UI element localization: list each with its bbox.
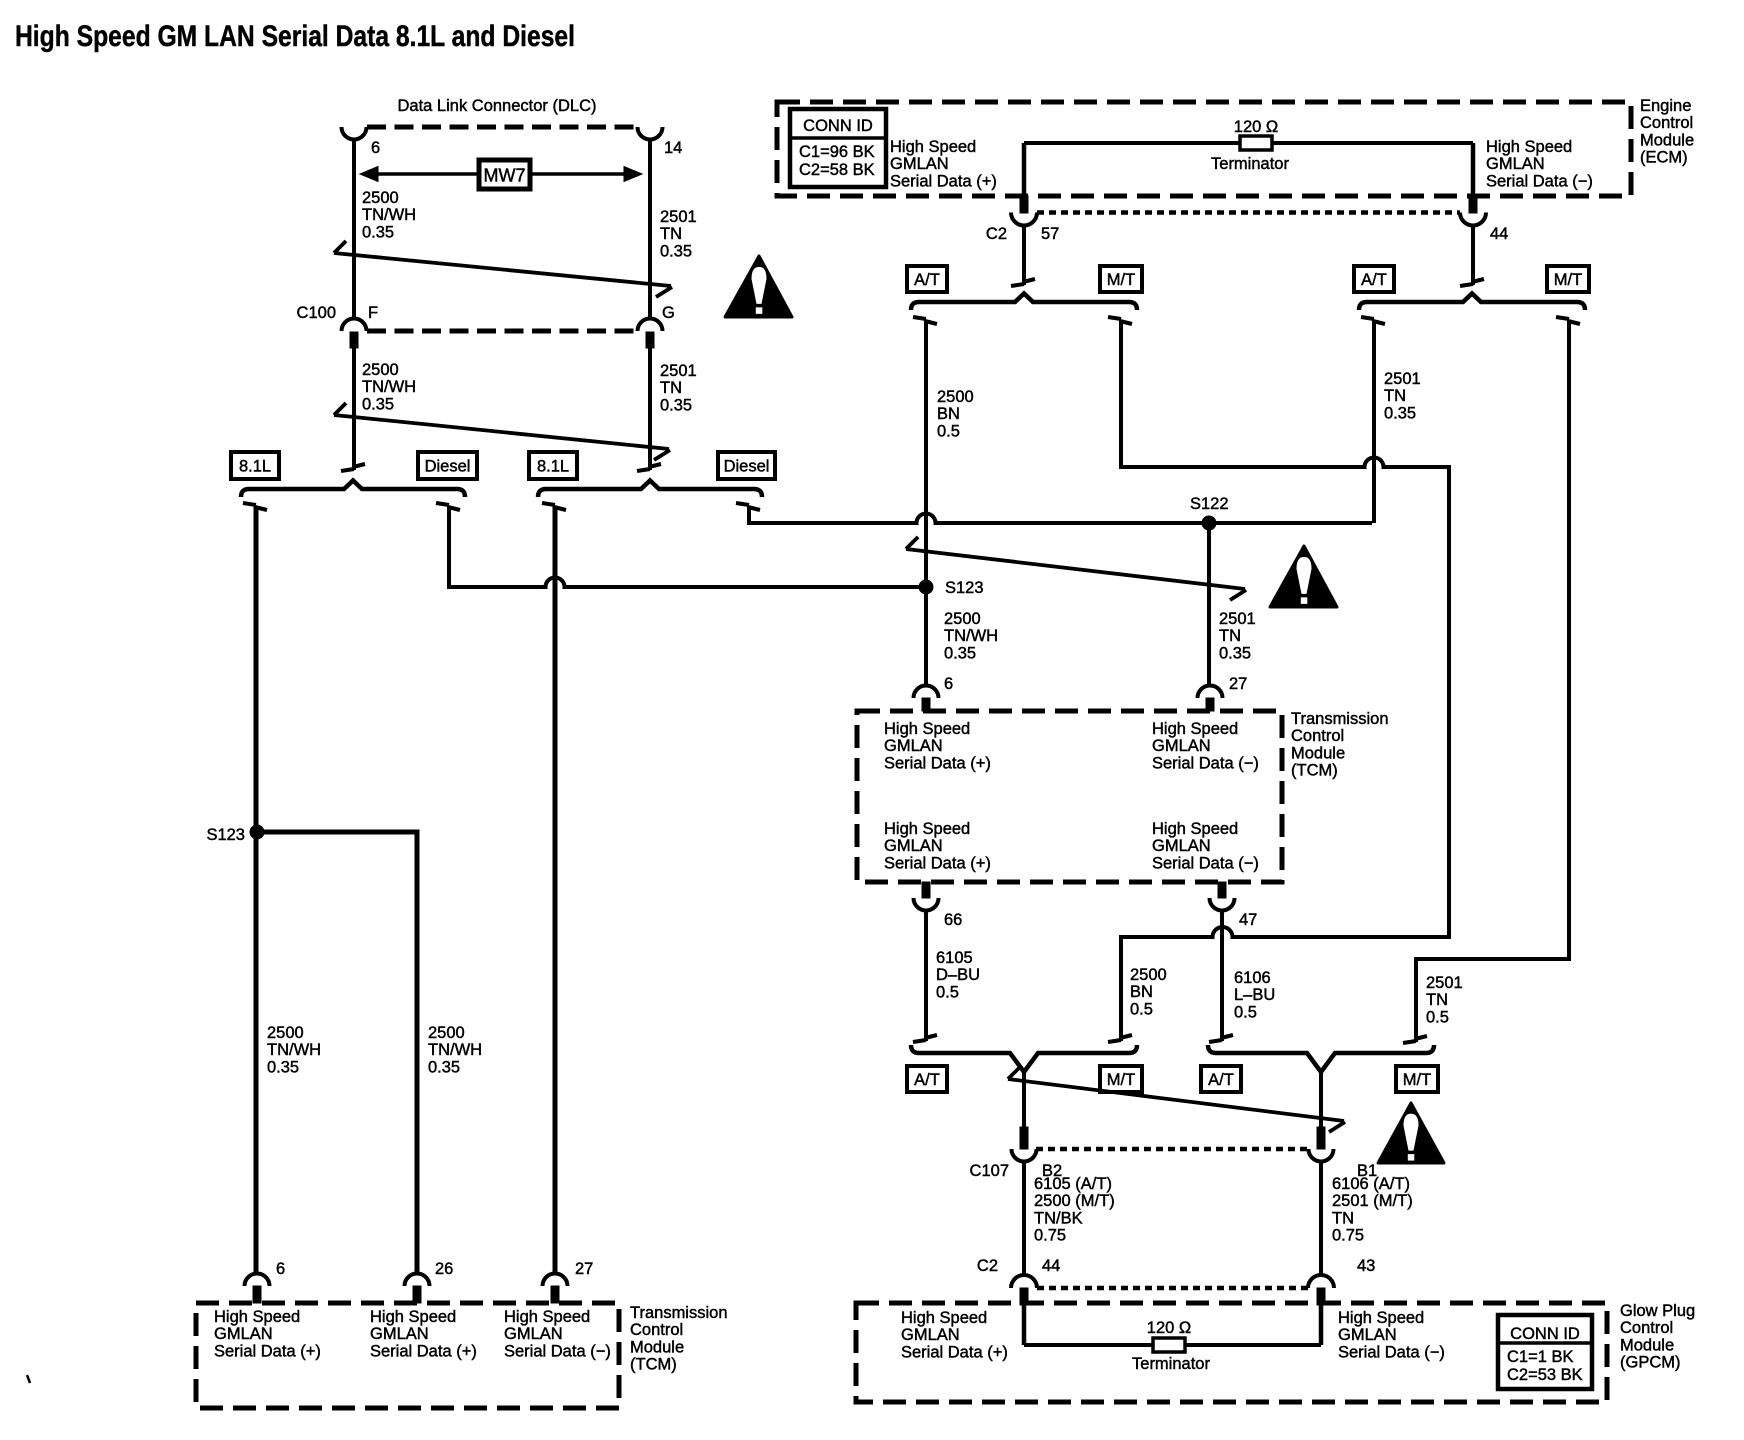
M/T box 2	[1547, 266, 1589, 292]
DLC pin 6 connector arc	[342, 127, 367, 140]
svg-text:High Speed: High Speed	[901, 1309, 987, 1327]
TCM2 pin 27 arc	[543, 1274, 568, 1287]
svg-text:Serial Data (+): Serial Data (+)	[884, 854, 991, 872]
svg-text:2501: 2501	[660, 208, 697, 226]
wire ECM pin 57 inside	[1022, 143, 1027, 197]
svg-text:GMLAN: GMLAN	[1152, 837, 1211, 855]
svg-text:6105 (A/T): 6105 (A/T)	[1034, 1175, 1112, 1193]
svg-text:TN/WH: TN/WH	[428, 1041, 482, 1059]
wire Diesel-B branch to S122	[736, 503, 760, 510]
svg-text:43: 43	[1357, 1257, 1375, 1275]
A/T box 2	[1354, 266, 1394, 292]
wire M/T-2 branch (2501 TN long)	[1556, 317, 1580, 324]
svg-text:L–BU: L–BU	[1234, 986, 1275, 1004]
svg-text:High Speed: High Speed	[1338, 1309, 1424, 1327]
wire brace4 to C107 B1	[1319, 1070, 1323, 1130]
svg-text:C107: C107	[970, 1162, 1009, 1180]
svg-text:47: 47	[1239, 911, 1257, 929]
svg-text:0.35: 0.35	[944, 644, 976, 662]
svg-text:High Speed: High Speed	[504, 1308, 590, 1326]
svg-text:2501: 2501	[1219, 610, 1256, 628]
svg-text:GMLAN: GMLAN	[1152, 737, 1211, 755]
GPCM module box	[856, 1303, 1607, 1402]
svg-text:2500: 2500	[362, 189, 399, 207]
svg-text:CONN ID: CONN ID	[803, 117, 873, 135]
svg-text:2501: 2501	[1426, 974, 1463, 992]
M/T box 3	[1100, 1066, 1142, 1092]
svg-text:120 Ω: 120 Ω	[1234, 118, 1278, 136]
svg-text:Serial Data (−): Serial Data (−)	[1486, 172, 1593, 190]
svg-text:C2=58 BK: C2=58 BK	[799, 161, 875, 179]
svg-text:0.5: 0.5	[937, 422, 960, 440]
svg-text:TN: TN	[660, 379, 682, 397]
TCM pin 47 stub	[1218, 882, 1226, 898]
svg-text:Transmission: Transmission	[630, 1304, 728, 1322]
svg-text:Serial Data (−): Serial Data (−)	[1152, 854, 1259, 872]
node S122	[1202, 516, 1216, 530]
GPCM terminator wire	[1024, 1343, 1321, 1347]
svg-text:Control: Control	[1640, 114, 1693, 132]
svg-text:TN: TN	[1219, 627, 1241, 645]
svg-text:M/T: M/T	[1107, 271, 1135, 289]
svg-text:High Speed: High Speed	[1152, 820, 1238, 838]
wire brace3 to C107 B2	[1022, 1070, 1026, 1130]
svg-text:MW7: MW7	[484, 166, 526, 186]
wire S122 to TCM pin 27	[1207, 523, 1211, 686]
svg-text:(TCM): (TCM)	[630, 1356, 677, 1374]
brace 4	[1208, 1045, 1434, 1072]
C2 pin 43 arc (GPCM)	[1308, 1275, 1334, 1288]
TCM pin 66 stub	[922, 882, 930, 898]
svg-text:Glow Plug: Glow Plug	[1620, 1302, 1695, 1320]
svg-text:0.35: 0.35	[1384, 404, 1416, 422]
C2 pin 44 arc	[1460, 213, 1486, 226]
svg-text:TN: TN	[660, 225, 682, 243]
wire below pin 57	[1022, 226, 1026, 286]
A/T box 3	[907, 1066, 947, 1092]
svg-text:6105: 6105	[936, 949, 973, 967]
wire 8.1L-B branch to TCM pin 27	[542, 503, 566, 510]
DLC pin 14 connector arc	[638, 127, 663, 140]
svg-text:27: 27	[1229, 675, 1247, 693]
svg-text:TN/WH: TN/WH	[362, 206, 416, 224]
svg-text:High Speed: High Speed	[890, 138, 976, 156]
svg-text:GMLAN: GMLAN	[890, 155, 949, 173]
svg-text:0.5: 0.5	[936, 983, 959, 1001]
GPCM CONN ID table	[1498, 1315, 1592, 1389]
svg-text:0.35: 0.35	[267, 1058, 299, 1076]
pointer diagonal 3	[1008, 1079, 1344, 1121]
svg-text:(TCM): (TCM)	[1291, 762, 1338, 780]
svg-text:C1=96 BK: C1=96 BK	[799, 143, 875, 161]
resistor 120 ohm terminator (ECM)	[1240, 136, 1272, 150]
svg-text:TN: TN	[1426, 991, 1448, 1009]
svg-text:0.35: 0.35	[1219, 644, 1251, 662]
wire S123 to TCM pin 26	[259, 832, 417, 1272]
svg-text:TN/WH: TN/WH	[944, 627, 998, 645]
node S123 left	[250, 825, 264, 839]
svg-text:High Speed GM LAN Serial Data: High Speed GM LAN Serial Data 8.1L and D…	[15, 20, 575, 53]
wire GPCM 44 to terminator	[1022, 1305, 1027, 1345]
svg-text:2500: 2500	[267, 1024, 304, 1042]
svg-text:2500 (M/T): 2500 (M/T)	[1034, 1192, 1115, 1210]
svg-text:High Speed: High Speed	[370, 1308, 456, 1326]
pointer diagonal 1	[334, 253, 671, 286]
M/T box 4	[1396, 1066, 1438, 1092]
brace 1	[911, 294, 1137, 311]
TCM pin 6 arc	[914, 686, 939, 699]
svg-text:Serial Data (+): Serial Data (+)	[884, 754, 991, 772]
svg-text:(ECM): (ECM)	[1640, 149, 1688, 167]
svg-text:High Speed: High Speed	[884, 820, 970, 838]
svg-text:2500: 2500	[428, 1024, 465, 1042]
wire TCM 66 down (6105)	[924, 910, 928, 1041]
svg-text:2500: 2500	[944, 610, 981, 628]
wire DLC pin 6 to C100 F	[352, 139, 356, 319]
svg-text:Diesel: Diesel	[425, 458, 471, 476]
svg-text:Serial Data (+): Serial Data (+)	[901, 1343, 1008, 1361]
C2 pin 44 arc (GPCM)	[1011, 1275, 1037, 1288]
svg-text:F: F	[368, 304, 378, 322]
svg-text:Control: Control	[1291, 727, 1344, 745]
svg-text:TN/BK: TN/BK	[1034, 1209, 1083, 1227]
svg-text:44: 44	[1490, 225, 1508, 243]
svg-text:26: 26	[435, 1260, 453, 1278]
wire C100 F down	[352, 348, 356, 470]
warning triangle 1	[725, 256, 792, 317]
svg-text:0.35: 0.35	[660, 396, 692, 414]
ECM terminator wire	[1024, 141, 1473, 145]
C100 pin G stub	[646, 332, 654, 348]
svg-text:GMLAN: GMLAN	[504, 1325, 563, 1343]
wire TCM 47 down (6106)	[1220, 910, 1224, 1041]
C107 connector dotted line	[1036, 1147, 1309, 1152]
warning triangle 2	[1270, 546, 1337, 607]
C100 connector dashed line	[367, 329, 637, 334]
A/T box 1	[907, 266, 947, 292]
svg-text:C1=1 BK: C1=1 BK	[1507, 1348, 1574, 1366]
svg-text:2500: 2500	[937, 388, 974, 406]
svg-text:Serial Data (+): Serial Data (+)	[890, 172, 997, 190]
brace 2	[1359, 294, 1585, 311]
wire 8.1L-A branch to S123	[243, 503, 267, 510]
svg-text:A/T: A/T	[1361, 271, 1387, 289]
svg-text:TN: TN	[1332, 1209, 1354, 1227]
brace 3	[911, 1045, 1137, 1072]
node S123 right	[919, 580, 933, 594]
svg-text:Serial Data (−): Serial Data (−)	[1152, 754, 1259, 772]
ECM pin 57 stub	[1020, 196, 1028, 213]
TCM2 module box	[196, 1303, 619, 1408]
svg-text:0.5: 0.5	[1234, 1003, 1257, 1021]
svg-text:2501: 2501	[1384, 370, 1421, 388]
wire A/T-2 branch (2501 TN)	[1361, 317, 1385, 324]
svg-text:8.1L: 8.1L	[239, 458, 271, 476]
svg-text:6: 6	[276, 1260, 285, 1278]
pointer diagonal 2	[906, 549, 1245, 589]
svg-text:Engine: Engine	[1640, 97, 1691, 115]
svg-text:Terminator: Terminator	[1132, 1355, 1210, 1373]
svg-text:CONN ID: CONN ID	[1510, 1325, 1580, 1343]
svg-text:G: G	[662, 304, 675, 322]
svg-text:GMLAN: GMLAN	[884, 837, 943, 855]
svg-text:C100: C100	[297, 304, 336, 322]
svg-text:BN: BN	[937, 405, 960, 423]
svg-text:0.5: 0.5	[1426, 1008, 1449, 1026]
ECM module box	[777, 102, 1631, 196]
svg-text:A/T: A/T	[914, 271, 940, 289]
svg-text:C2: C2	[986, 225, 1007, 243]
svg-text:0.35: 0.35	[362, 223, 394, 241]
svg-text:0.75: 0.75	[1332, 1227, 1364, 1245]
ECM CONN ID table	[790, 109, 886, 187]
warning triangle 3	[1378, 1103, 1444, 1163]
svg-text:M/T: M/T	[1554, 271, 1582, 289]
stray mark	[27, 1375, 30, 1383]
wire below pin 44	[1471, 226, 1475, 286]
C107 pin B1 arc	[1309, 1149, 1334, 1162]
svg-text:14: 14	[664, 139, 682, 157]
svg-text:2501: 2501	[660, 362, 697, 380]
wire B1 down	[1319, 1162, 1323, 1276]
svg-text:27: 27	[575, 1260, 593, 1278]
svg-text:GMLAN: GMLAN	[370, 1325, 429, 1343]
svg-text:TN/WH: TN/WH	[362, 378, 416, 396]
svg-text:S122: S122	[1190, 495, 1229, 513]
svg-text:Serial Data (+): Serial Data (+)	[370, 1342, 477, 1360]
M/T box 1	[1100, 266, 1142, 292]
TCM2 pin 26 arc	[405, 1274, 430, 1287]
svg-text:High Speed: High Speed	[884, 720, 970, 738]
svg-text:GMLAN: GMLAN	[1486, 155, 1545, 173]
svg-text:Diesel: Diesel	[724, 458, 770, 476]
svg-text:0.75: 0.75	[1034, 1227, 1066, 1245]
svg-text:6: 6	[944, 675, 953, 693]
pointer diagonal 2a	[334, 415, 669, 449]
svg-text:6106 (A/T): 6106 (A/T)	[1332, 1175, 1410, 1193]
C100 pin F stub	[350, 332, 358, 348]
svg-text:Serial Data (+): Serial Data (+)	[214, 1342, 321, 1360]
TCM pin 27 arc	[1198, 686, 1223, 699]
Diesel box B	[718, 452, 775, 479]
C2 connector dotted line (GPCM)	[1037, 1286, 1308, 1291]
svg-text:0.35: 0.35	[428, 1058, 460, 1076]
svg-text:0.35: 0.35	[362, 395, 394, 413]
TCM2 pin 6 arc	[245, 1274, 270, 1287]
svg-text:(GPCM): (GPCM)	[1620, 1354, 1681, 1372]
wire A/T-1 branch (2500 BN) to TCM pin 6	[913, 317, 937, 324]
svg-text:0.5: 0.5	[1130, 1000, 1153, 1018]
C2 pin 57 arc	[1011, 213, 1037, 226]
svg-text:S123: S123	[206, 826, 245, 844]
svg-text:Serial Data (−): Serial Data (−)	[504, 1342, 611, 1360]
svg-text:Control: Control	[630, 1321, 683, 1339]
svg-text:2501 (M/T): 2501 (M/T)	[1332, 1192, 1413, 1210]
svg-text:GMLAN: GMLAN	[884, 737, 943, 755]
svg-text:GMLAN: GMLAN	[901, 1326, 960, 1344]
C100 pin F arc	[342, 319, 367, 332]
svg-text:44: 44	[1042, 1257, 1060, 1275]
svg-text:2500: 2500	[362, 361, 399, 379]
svg-text:M/T: M/T	[1403, 1071, 1431, 1089]
brace B	[538, 481, 762, 498]
wire B2 down	[1022, 1162, 1026, 1276]
C2 connector dotted line (ECM)	[1037, 210, 1460, 215]
C100 pin G arc	[638, 319, 663, 332]
resistor 120 ohm terminator (GPCM)	[1153, 1338, 1185, 1352]
svg-text:Serial Data (−): Serial Data (−)	[1338, 1343, 1445, 1361]
svg-text:0.35: 0.35	[660, 242, 692, 260]
svg-text:TN: TN	[1384, 387, 1406, 405]
8.1L box A	[231, 452, 279, 479]
svg-text:6106: 6106	[1234, 969, 1271, 987]
MW7 box	[479, 160, 530, 189]
svg-text:Terminator: Terminator	[1211, 155, 1289, 173]
svg-text:C2: C2	[977, 1257, 998, 1275]
ECM pin 44 stub	[1469, 196, 1477, 213]
svg-text:A/T: A/T	[1208, 1071, 1234, 1089]
8.1L box B	[529, 452, 577, 479]
svg-text:120 Ω: 120 Ω	[1147, 1319, 1191, 1337]
svg-text:GMLAN: GMLAN	[1338, 1326, 1397, 1344]
wire DLC pin 14 to C100 G	[648, 139, 652, 319]
svg-text:Module: Module	[1291, 744, 1345, 762]
svg-text:Module: Module	[1640, 131, 1694, 149]
svg-text:6: 6	[371, 139, 380, 157]
Diesel box A	[418, 452, 477, 479]
MW7 jumper arrow	[366, 172, 636, 176]
svg-text:Module: Module	[1620, 1336, 1674, 1354]
svg-text:Transmission: Transmission	[1291, 710, 1389, 728]
svg-text:High Speed: High Speed	[214, 1308, 300, 1326]
svg-text:Module: Module	[630, 1338, 684, 1356]
svg-text:57: 57	[1041, 225, 1059, 243]
svg-text:D–BU: D–BU	[936, 966, 980, 984]
svg-text:8.1L: 8.1L	[537, 458, 569, 476]
svg-text:66: 66	[944, 911, 962, 929]
A/T box 4	[1201, 1066, 1241, 1092]
DLC connector dashed line	[367, 125, 640, 130]
svg-text:TN/WH: TN/WH	[267, 1041, 321, 1059]
brace A	[241, 481, 465, 498]
wire C100 G down	[648, 348, 652, 470]
svg-text:Control: Control	[1620, 1319, 1673, 1337]
svg-text:M/T: M/T	[1107, 1071, 1135, 1089]
wire ECM pin 44 inside	[1471, 143, 1476, 197]
wire GPCM 43 to terminator	[1319, 1305, 1324, 1345]
svg-text:High Speed: High Speed	[1486, 138, 1572, 156]
svg-text:S123: S123	[945, 579, 984, 597]
svg-text:A/T: A/T	[914, 1071, 940, 1089]
svg-text:C2=53 BK: C2=53 BK	[1507, 1366, 1583, 1384]
TCM module box	[857, 711, 1282, 882]
svg-text:BN: BN	[1130, 983, 1153, 1001]
wire M/T-1 branch (2500 BN loop)	[1108, 317, 1132, 324]
svg-text:High Speed: High Speed	[1152, 720, 1238, 738]
svg-text:Data Link Connector (DLC): Data Link Connector (DLC)	[398, 97, 597, 115]
wire Diesel-A branch	[436, 503, 460, 510]
C107 pin B2 arc	[1012, 1149, 1037, 1162]
svg-text:GMLAN: GMLAN	[214, 1325, 273, 1343]
svg-text:2500: 2500	[1130, 966, 1167, 984]
